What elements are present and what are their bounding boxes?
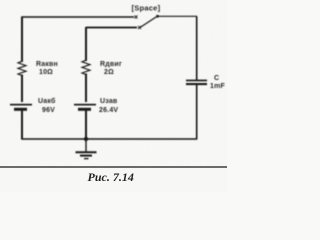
wire middle lower [85, 110, 87, 139]
ground bar 1 [76, 151, 97, 153]
battery U2 short plate [78, 108, 91, 111]
wire right lower [196, 85, 198, 139]
wire top-left [22, 16, 134, 18]
wire left middle [21, 75, 23, 103]
ground stub wire [85, 139, 87, 152]
wire left upper [21, 16, 23, 62]
wire middle upper [85, 27, 87, 61]
wire middle middle [85, 74, 87, 103]
wire left lower [21, 110, 23, 140]
switch S1 pivot dot [156, 15, 159, 18]
battery U1 short plate [14, 108, 27, 111]
battery U1 long plate [10, 104, 32, 106]
wire right upper [196, 16, 198, 80]
resistor R1 zigzag [18, 61, 26, 75]
wire top-right [157, 15, 197, 17]
switch S1 left terminal [135, 16, 138, 19]
ground bar 3 [84, 158, 89, 160]
switch S1 blade [140, 16, 158, 28]
capacitor C top plate [186, 80, 207, 82]
battery U2 long plate [74, 104, 96, 106]
ground bar 2 [80, 155, 92, 157]
wire middle-top (inner branch horizontal) [86, 27, 137, 29]
scan noise texture [0, 0, 1, 1]
switch S1 middle terminal [138, 26, 141, 29]
capacitor C bottom plate [186, 83, 207, 85]
resistor R2 zigzag [82, 60, 90, 74]
figure separator line [0, 166, 227, 168]
junction node dot [84, 137, 88, 141]
wire bottom [21, 138, 197, 140]
